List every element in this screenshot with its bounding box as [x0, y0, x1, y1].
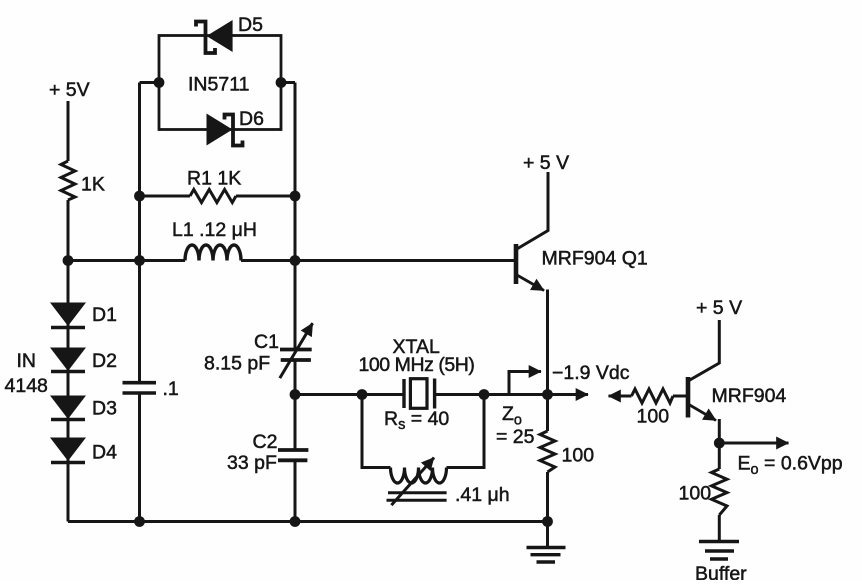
svg-text:100: 100: [679, 483, 712, 505]
svg-text:+ 5 V: + 5 V: [523, 152, 569, 174]
svg-text:D3: D3: [92, 398, 117, 420]
svg-text:+ 5V: + 5V: [49, 79, 90, 101]
svg-text:Buffer: Buffer: [695, 563, 747, 580]
svg-text:Rs = 40: Rs = 40: [384, 408, 449, 433]
svg-text:.1: .1: [163, 378, 179, 400]
svg-text:Zo: Zo: [502, 403, 522, 429]
svg-text:D6: D6: [239, 108, 264, 130]
svg-text:8.15 pF: 8.15 pF: [204, 353, 270, 375]
svg-text:100 MHz (5H): 100 MHz (5H): [359, 354, 475, 376]
svg-text:IN5711: IN5711: [188, 74, 249, 96]
svg-text:IN: IN: [17, 350, 37, 372]
svg-text:−1.9 Vdc: −1.9 Vdc: [552, 362, 630, 384]
svg-text:.41 μh: .41 μh: [455, 484, 510, 506]
svg-text:D4: D4: [92, 442, 117, 464]
svg-text:100: 100: [562, 445, 595, 467]
svg-text:1K: 1K: [81, 174, 105, 196]
svg-text:D1: D1: [92, 304, 117, 326]
svg-text:= 25: = 25: [496, 426, 535, 448]
svg-text:C1: C1: [254, 331, 279, 353]
svg-text:D5: D5: [238, 14, 263, 36]
svg-text:MRF904 Q1: MRF904 Q1: [542, 248, 648, 270]
svg-text:4148: 4148: [5, 375, 48, 397]
svg-text:D2: D2: [92, 350, 117, 372]
svg-text:+ 5 V: + 5 V: [696, 297, 742, 319]
svg-text:L1 .12 μH: L1 .12 μH: [172, 219, 257, 241]
svg-text:R1 1K: R1 1K: [187, 168, 241, 190]
svg-text:33 pF: 33 pF: [227, 452, 277, 474]
svg-text:C2: C2: [253, 431, 278, 453]
svg-text:Eo = 0.6Vpp: Eo = 0.6Vpp: [738, 453, 843, 479]
svg-text:100: 100: [637, 406, 670, 428]
svg-text:MRF904: MRF904: [712, 385, 787, 407]
